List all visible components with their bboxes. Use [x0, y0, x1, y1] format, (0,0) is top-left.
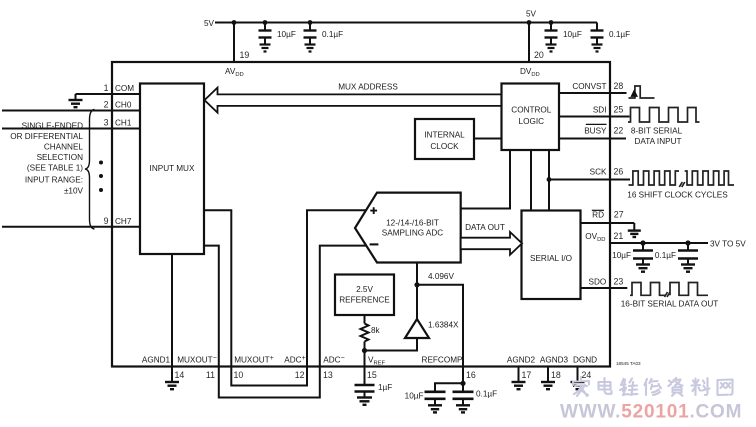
svg-text:16: 16 — [466, 370, 476, 380]
svg-text:MUXOUT+: MUXOUT+ — [234, 355, 274, 365]
svg-text:26: 26 — [614, 167, 624, 177]
wire DVdd drop to pin 20 — [528, 23, 530, 63]
junction SCK tap — [547, 177, 552, 182]
svg-text:19: 19 — [240, 50, 250, 60]
wire loop pin 10 to pin 12 — [231, 366, 307, 386]
svg-text:13: 13 — [323, 370, 333, 380]
waveform SCK clock — [629, 171, 680, 185]
svg-text:SCK: SCK — [590, 168, 607, 177]
svg-text:OR DIFFERENTIAL: OR DIFFERENTIAL — [10, 132, 83, 141]
svg-text:24: 24 — [582, 370, 592, 380]
svg-text:10µF: 10µF — [405, 392, 424, 401]
wire MUXOUT+ from mux to pin 10 — [204, 210, 231, 366]
svg-text:8k: 8k — [371, 326, 381, 335]
serial I/O U4 — [522, 211, 581, 300]
pin 23 SDO wire — [581, 287, 628, 289]
junction C8 top — [640, 240, 645, 245]
junction DVdd drop — [527, 20, 532, 25]
pin 28 CONVST wire — [559, 92, 627, 94]
svg-text:15: 15 — [367, 370, 377, 380]
svg-text:12-/14-/16-BIT: 12-/14-/16-BIT — [386, 218, 439, 227]
wire buffer output to 4.096V node — [416, 285, 418, 319]
svg-text:CH0: CH0 — [115, 101, 132, 110]
ground (pin 24) — [571, 382, 585, 389]
wire pin 18 to ground — [547, 366, 549, 382]
label - input — [370, 243, 379, 245]
char liao — [692, 378, 710, 395]
svg-text:10: 10 — [234, 370, 244, 380]
svg-text:WWW.520101.COM: WWW.520101.COM — [560, 402, 742, 423]
char xiu — [645, 379, 662, 395]
wire pin 15 Vref to cap C5 — [364, 366, 366, 385]
ground (C4) — [592, 45, 603, 52]
ground (pin 18) — [541, 382, 555, 389]
svg-text:11: 11 — [206, 370, 215, 380]
svg-text:COM: COM — [115, 84, 134, 93]
ground (C9) — [681, 265, 695, 272]
pin 3 CH1 wire — [2, 128, 140, 130]
junction REFCOMP cap tap — [460, 381, 465, 386]
char wang — [718, 380, 733, 396]
junction C9 top — [685, 240, 690, 245]
capacitor C5 1uF (Vref) — [355, 385, 375, 397]
wire RD to ground — [633, 223, 635, 230]
svg-text:5V: 5V — [204, 19, 215, 28]
svg-text:CONVST: CONVST — [572, 82, 606, 91]
svg-text:10µF: 10µF — [563, 30, 582, 39]
svg-text:10µF: 10µF — [612, 251, 631, 260]
ADC block U5 — [355, 193, 461, 263]
svg-text:CH1: CH1 — [115, 119, 132, 128]
svg-text:MUXOUT−: MUXOUT− — [177, 355, 217, 365]
brace channel selection — [85, 110, 95, 230]
wire mux bottom to AGND1 pin 14 — [171, 254, 173, 366]
ground (C7) — [456, 405, 470, 412]
svg-text:2: 2 — [104, 100, 109, 110]
svg-text:SINGLE-ENDED: SINGLE-ENDED — [22, 121, 84, 130]
svg-text:CONTROL: CONTROL — [511, 106, 551, 115]
svg-text:0.1µF: 0.1µF — [476, 390, 497, 399]
ground (pin 17) — [512, 382, 526, 389]
watermark chinese line — [573, 377, 733, 396]
ground (C1) — [260, 45, 271, 52]
capacitor C1 10uF (AVdd) — [259, 23, 272, 45]
svg-text:DATA INPUT: DATA INPUT — [634, 137, 681, 146]
reference U6 2.5V — [335, 275, 394, 316]
wire AVdd drop to pin 19 — [233, 23, 235, 63]
capacitor C6 10uF (REFCOMP) — [425, 392, 446, 405]
wire control logic to ADC — [461, 150, 510, 209]
capacitor C7 0.1uF (REFCOMP) — [453, 392, 474, 405]
svg-text:12: 12 — [295, 370, 305, 380]
svg-text:SELECTION: SELECTION — [37, 153, 83, 162]
svg-text:16 SHIFT CLOCK CYCLES: 16 SHIFT CLOCK CYCLES — [627, 191, 728, 200]
pin 21 OVdd wire — [610, 242, 708, 244]
control logic U2 — [502, 84, 560, 151]
waveform convst pulse — [629, 86, 655, 98]
input mux U1 — [140, 84, 204, 255]
pin 9 CH7 wire — [2, 226, 140, 228]
svg-text:DATA OUT: DATA OUT — [465, 223, 505, 232]
capacitor C3 10uF (DVdd) — [545, 23, 558, 45]
svg-text:1.6384X: 1.6384X — [428, 321, 459, 330]
wire resistor to Vref node — [364, 342, 366, 367]
pin 25 SDI wire — [559, 116, 630, 118]
svg-text:17: 17 — [522, 370, 532, 380]
svg-text:REFERENCE: REFERENCE — [339, 296, 390, 305]
ground (C2) — [305, 45, 316, 52]
wire Vref node to buffer input — [365, 338, 418, 351]
wire 4.096V node to REFCOMP pin 16 — [417, 285, 463, 366]
svg-text:16-BIT SERIAL DATA OUT: 16-BIT SERIAL DATA OUT — [621, 300, 719, 309]
junction C1 top — [263, 20, 268, 25]
svg-text:CHANNEL: CHANNEL — [44, 142, 84, 151]
svg-text:DGND: DGND — [573, 356, 597, 365]
svg-text:AGND2: AGND2 — [507, 356, 536, 365]
svg-text:18: 18 — [551, 370, 561, 380]
wire control logic to serial I/O (right) — [548, 150, 550, 211]
ground (C6) — [428, 405, 442, 412]
buffer amp A1 1.6384X — [405, 319, 429, 338]
svg-text:CLOCK: CLOCK — [430, 142, 459, 151]
svg-text:3V TO 5V: 3V TO 5V — [710, 240, 746, 249]
svg-text:21: 21 — [614, 231, 624, 241]
pin 27 RD wire — [581, 222, 635, 224]
waveform break marks (SDO) — [665, 292, 671, 297]
svg-text:BUSY: BUSY — [584, 127, 607, 136]
ground (C8) — [636, 265, 650, 272]
wire ADC+ pin 12 to ADC — [307, 210, 367, 366]
svg-text:23: 23 — [614, 277, 624, 287]
junction AVdd drop — [232, 20, 237, 25]
char jia — [573, 377, 589, 396]
bus arrow MUX ADDRESS — [205, 88, 502, 113]
waveform break marks — [679, 182, 685, 187]
svg-text:14: 14 — [175, 370, 185, 380]
char dian — [599, 378, 612, 394]
wire ADC- pin 13 to ADC — [320, 246, 367, 366]
pin 26 SCK wire — [549, 179, 630, 181]
svg-text:(SEE TABLE 1): (SEE TABLE 1) — [27, 163, 83, 172]
label + input — [370, 207, 377, 214]
svg-text:9: 9 — [104, 216, 109, 226]
pin 2 CH0 wire — [2, 110, 140, 112]
wire pin 24 to ground — [577, 366, 579, 382]
svg-text:AGND1: AGND1 — [142, 356, 171, 365]
svg-text:28: 28 — [614, 81, 624, 91]
ground (RD) — [628, 231, 641, 237]
wire pin 17 to ground — [518, 366, 520, 382]
capacitor C9 0.1uF (OVdd) — [678, 243, 698, 264]
svg-text:MUX ADDRESS: MUX ADDRESS — [338, 83, 398, 92]
waveform SDI data — [628, 108, 700, 123]
capacitor C8 10uF (OVdd) — [633, 243, 653, 264]
svg-text:±10V: ±10V — [64, 186, 84, 195]
wire reference to resistor — [364, 315, 366, 324]
svg-text:0.1µF: 0.1µF — [609, 30, 630, 39]
char zi — [669, 378, 683, 396]
resistor R1 8k — [361, 324, 369, 342]
svg-text:SDO: SDO — [589, 278, 607, 287]
ground (C3) — [546, 45, 557, 52]
svg-text:20: 20 — [534, 50, 544, 60]
waveform SDO data — [630, 283, 666, 296]
bus arrow DATA OUT — [461, 232, 522, 255]
ground (pin 14) — [165, 382, 179, 389]
char wei — [620, 379, 638, 396]
svg-text:0.1µF: 0.1µF — [322, 30, 343, 39]
svg-text:SDI: SDI — [593, 106, 607, 115]
pin 22 BUSY wire — [559, 138, 626, 140]
svg-text:8-BIT SERIAL: 8-BIT SERIAL — [631, 127, 683, 136]
ellipsis channel dots — [99, 161, 103, 193]
ground (C5) — [357, 398, 372, 405]
wire loop pin 11 to pin 13 — [219, 366, 320, 398]
svg-text:5V: 5V — [526, 10, 537, 19]
svg-text:4.096V: 4.096V — [428, 272, 454, 281]
svg-text:0.1µF: 0.1µF — [655, 251, 676, 260]
svg-text:22: 22 — [614, 126, 624, 136]
wire MUXOUT- from mux to pin 11 — [204, 246, 219, 366]
wire internal clock to control logic — [474, 138, 502, 140]
internal clock U3 — [415, 119, 474, 159]
svg-text:2.5V: 2.5V — [356, 285, 373, 294]
capacitor C4 0.1uF (DVdd) — [591, 23, 604, 45]
pin 1 COM wire — [76, 93, 141, 95]
wire control logic to serial I/O (left) — [530, 150, 532, 211]
svg-text:SAMPLING ADC: SAMPLING ADC — [382, 229, 444, 238]
svg-text:25: 25 — [614, 105, 624, 115]
svg-text:27: 27 — [614, 210, 624, 220]
svg-text:REFCOMP: REFCOMP — [422, 356, 463, 365]
svg-text:AGND3: AGND3 — [540, 356, 569, 365]
wire REFCOMP pin 16 to caps — [462, 366, 464, 392]
wire pin 14 to ground — [171, 366, 173, 382]
svg-text:10µF: 10µF — [277, 30, 296, 39]
svg-text:INPUT RANGE:: INPUT RANGE: — [25, 175, 83, 184]
junction C2 top — [308, 20, 313, 25]
junction Vref node — [362, 348, 367, 353]
svg-text:18545 TA03: 18545 TA03 — [616, 361, 641, 366]
svg-text:CH7: CH7 — [115, 217, 132, 226]
svg-text:INPUT MUX: INPUT MUX — [150, 164, 195, 173]
wire tap to cap C6 — [435, 383, 463, 391]
wire 5V top rail — [215, 22, 597, 24]
capacitor C2 0.1uF (AVdd) — [304, 23, 317, 45]
wire ADC to 4.096V node — [416, 263, 418, 285]
svg-text:SERIAL I/O: SERIAL I/O — [530, 254, 572, 263]
svg-text:LOGIC: LOGIC — [519, 117, 545, 126]
ground (COM pin 1) — [69, 94, 83, 107]
svg-text:3: 3 — [104, 118, 109, 128]
svg-text:INTERNAL: INTERNAL — [424, 130, 465, 139]
junction C3 top — [549, 20, 554, 25]
svg-text:RD: RD — [592, 211, 604, 220]
note channel selection text — [10, 121, 83, 195]
junction 4.096V node — [414, 282, 419, 287]
IC boundary — [112, 62, 610, 367]
svg-text:1: 1 — [104, 83, 109, 93]
svg-text:1µF: 1µF — [378, 383, 392, 392]
